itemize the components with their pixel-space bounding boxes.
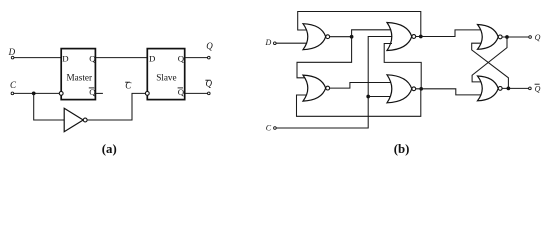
node C (input terminal, diagram b) — [266, 124, 276, 133]
wire D to Master — [14, 57, 61, 59]
wire G3 output feedback: top line to G1 upper input — [298, 12, 421, 37]
junction G3 output — [419, 35, 423, 39]
wire G5 output to node Q — [502, 36, 529, 38]
svg-text:C: C — [10, 80, 17, 90]
svg-text:(b): (b) — [394, 142, 410, 156]
svg-text:D: D — [8, 47, 16, 57]
wire Slave Qbar to output terminal — [185, 92, 208, 94]
svg-text:Q: Q — [89, 53, 96, 63]
wire G4 lower input — [368, 96, 392, 98]
svg-text:Q: Q — [535, 33, 541, 42]
wire G2 output to G4 upper input — [330, 83, 392, 89]
node Qbar (output terminal, diagram a) — [205, 79, 212, 95]
wire C junction down to inverter input — [34, 93, 64, 120]
svg-text:Slave: Slave — [156, 73, 176, 83]
net label C-bar — [125, 81, 132, 91]
nor-gate G3 (3-input) — [387, 23, 416, 51]
svg-text:D: D — [265, 38, 272, 47]
wire G3 lower input feedback from G4 output — [384, 44, 421, 89]
inverter (NOT gate) — [64, 108, 87, 131]
wire inverter output to Slave clock bubble — [87, 93, 145, 120]
nor-gate G5 — [478, 25, 503, 50]
wire G2 lower input from G4 output bottom line — [297, 89, 421, 117]
wire D to G1 lower input — [276, 42, 307, 44]
flip-flop U1 Master box — [59, 49, 96, 100]
svg-text:Master: Master — [67, 73, 93, 83]
node Q (output terminal, diagram a) — [206, 41, 213, 59]
svg-text:Q: Q — [206, 41, 213, 51]
wire Master Q to Slave D — [95, 57, 147, 59]
wire Master Qbar stub — [95, 92, 103, 94]
wire G3 output to G5 upper input — [416, 30, 481, 37]
svg-text:(a): (a) — [102, 142, 117, 156]
svg-text:Q: Q — [178, 53, 185, 63]
node C (input terminal, diagram a) — [10, 80, 17, 95]
wire G1 output to junction — [330, 36, 352, 38]
nor-gate G2 — [303, 75, 330, 101]
nor-gate G6 — [478, 76, 503, 101]
wire G6 out cross to G5 lower input — [472, 43, 509, 88]
wire G1 out up to G3 upper input — [352, 30, 390, 37]
wire G5 out cross to G6 upper input — [472, 37, 507, 82]
svg-text:D: D — [149, 53, 155, 63]
svg-text:C: C — [266, 124, 272, 133]
nor-gate G1 — [303, 24, 330, 50]
wire G6 output to node Qbar — [502, 87, 529, 89]
node Q (output terminal, diagram b) — [529, 33, 541, 42]
junction C net on G4 lower input — [366, 95, 370, 99]
svg-text:Q: Q — [535, 85, 541, 94]
node D (input terminal, diagram b) — [265, 38, 277, 47]
flip-flop U2 Slave box — [145, 49, 184, 100]
junction G5 output — [505, 35, 509, 39]
node D (input terminal, diagram a) — [8, 47, 16, 59]
wire G4 output to G6 lower input — [416, 89, 481, 95]
svg-text:Q: Q — [178, 87, 185, 97]
svg-text:Q: Q — [89, 87, 96, 97]
junction G1 output — [350, 35, 354, 39]
nor-gate G4 — [387, 75, 416, 103]
wire C to Master clock bubble — [14, 92, 60, 94]
wire Slave Q to output terminal — [185, 57, 208, 59]
junction on C wire — [32, 92, 36, 96]
node Qbar (output terminal, diagram b) — [529, 84, 541, 93]
junction G4 output — [419, 87, 423, 91]
wire C net: right, up, into G3 middle input — [276, 37, 393, 129]
junction G6 output — [507, 87, 511, 91]
wire G1 out down to G2 upper input — [297, 37, 352, 78]
svg-text:D: D — [62, 53, 68, 63]
